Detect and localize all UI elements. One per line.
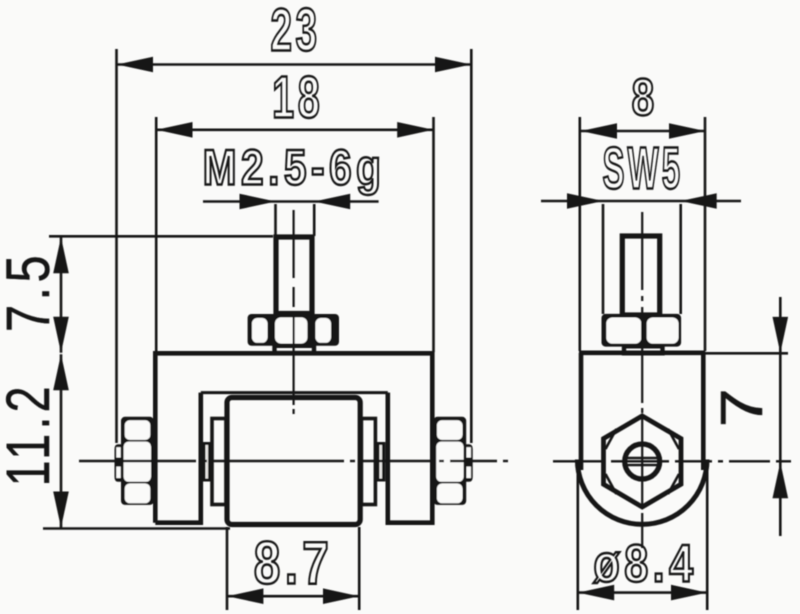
hexagon chamfer mark top-right bbox=[668, 429, 679, 449]
dimension 23 extension line right bbox=[470, 49, 473, 443]
svg-text:ø8.4: ø8.4 bbox=[593, 534, 697, 593]
dimension 8 arrow left bbox=[581, 123, 617, 139]
dimension 8 extension line right bbox=[704, 117, 707, 351]
dimension 8.7 line bbox=[227, 595, 359, 598]
dimension SW5 arrow left (pointing right) bbox=[567, 193, 603, 209]
dimension 18 extension line right bbox=[432, 117, 435, 352]
dimension diameter 8.4 extension line left bbox=[576, 470, 579, 610]
SW5 extension line left bbox=[602, 204, 605, 314]
axle end left bbox=[202, 442, 212, 482]
dimension 7 top extension line bbox=[705, 352, 788, 355]
dimension 8.7 arrow right bbox=[323, 588, 359, 604]
body (side view) top edge bbox=[579, 350, 705, 355]
thread dimension M2.5-6g line with tails bbox=[203, 200, 379, 203]
svg-text:18: 18 bbox=[272, 65, 323, 131]
dimension 23 extension line left bbox=[115, 49, 118, 443]
horizontal centerline (side view) bbox=[553, 460, 791, 462]
dimension 23 arrow left bbox=[117, 57, 153, 73]
thread extension line right bbox=[313, 204, 316, 236]
hexagon chamfer mark bottom-right bbox=[668, 474, 679, 494]
dimension 11.2 arrow up bbox=[53, 354, 69, 390]
screwdriver slot lines bbox=[624, 457, 660, 459]
thread dimension arrow right (pointing left at stud) bbox=[314, 194, 350, 210]
body bracket (fork) bbox=[155, 353, 432, 522]
dimension 11.2 bottom extension line bbox=[43, 527, 230, 530]
dimension 7 arrow down (above) bbox=[773, 317, 789, 353]
dimension 7 line bbox=[779, 297, 782, 536]
hexagon chamfer mark top-left bbox=[606, 429, 617, 449]
dimension 8.7 arrow left bbox=[227, 588, 263, 604]
svg-text:8: 8 bbox=[632, 68, 659, 126]
body (side view) right edge bbox=[701, 353, 706, 470]
dimension 8.7 extension line right bbox=[358, 527, 361, 610]
dimension diameter 8.4 extension line right bbox=[706, 470, 709, 610]
dimension diameter 8.4 arrow right bbox=[671, 585, 707, 601]
threaded stud bbox=[276, 237, 312, 314]
svg-text:7.5: 7.5 bbox=[0, 251, 62, 332]
side washer right bbox=[466, 444, 473, 482]
axle end right bbox=[376, 442, 386, 482]
body (side view) left edge bbox=[579, 353, 584, 470]
collar under nut (side view) bbox=[624, 346, 663, 353]
dimension 8 line bbox=[581, 130, 705, 133]
spacer washer left bbox=[212, 419, 226, 505]
svg-text:23: 23 bbox=[270, 0, 320, 64]
dimension 11.2 arrow down bbox=[53, 492, 69, 528]
vertical centerline (side view) bbox=[641, 212, 643, 548]
dimension 18 extension line left bbox=[155, 117, 158, 352]
side nut right bbox=[433, 417, 466, 505]
dimension 11.2 line bbox=[60, 354, 63, 527]
side nut left bbox=[121, 417, 154, 505]
hexagon chamfer mark bottom-left bbox=[606, 474, 617, 494]
svg-text:11.2: 11.2 bbox=[0, 382, 62, 486]
fork inner top line bbox=[201, 391, 388, 394]
svg-text:8.7: 8.7 bbox=[254, 529, 333, 597]
dimension 8 extension line left bbox=[578, 117, 581, 351]
hexagon nut (face view) bbox=[604, 416, 682, 507]
svg-text:M2.5-6g: M2.5-6g bbox=[203, 138, 386, 195]
dimension 7.5 line bbox=[60, 237, 63, 352]
thread extension line left bbox=[274, 204, 277, 236]
dimension 7.5 arrow up bbox=[53, 237, 69, 273]
roller arc (bottom half circle) bbox=[577, 460, 707, 525]
horizontal centerline of roller axis bbox=[79, 460, 508, 462]
threaded stud (side view) bbox=[622, 236, 659, 315]
SW5 extension line right bbox=[679, 204, 682, 314]
dimension SW5 line with tails bbox=[541, 200, 741, 203]
dimension SW5 arrow right (pointing left) bbox=[681, 193, 717, 209]
top nut (side view) bbox=[602, 314, 682, 347]
roller bbox=[227, 398, 360, 525]
collar under nut bbox=[275, 346, 315, 353]
thread dimension arrow left (pointing right at stud) bbox=[240, 194, 276, 210]
top nut bbox=[248, 314, 339, 346]
dimension 18 arrow right bbox=[397, 122, 433, 138]
spacer washer right bbox=[361, 419, 375, 505]
dimension 7.5 top extension line bbox=[49, 235, 273, 238]
axle end circle bbox=[625, 444, 660, 479]
dimension 7 arrow up (below) bbox=[773, 462, 789, 498]
dimension 18 line bbox=[157, 129, 434, 132]
dimension 18 arrow left bbox=[157, 122, 193, 138]
dimension 7.5 arrow down bbox=[53, 317, 69, 353]
svg-text:7: 7 bbox=[709, 382, 775, 428]
dimension diameter 8.4 line bbox=[578, 591, 707, 594]
vertical centerline of stud bbox=[293, 210, 295, 414]
dimension 8.7 extension line left bbox=[226, 527, 229, 610]
dimension diameter 8.4 arrow left bbox=[578, 585, 614, 601]
dimension 23 arrow right bbox=[435, 57, 471, 73]
side washer left bbox=[115, 444, 122, 482]
svg-text:SW5: SW5 bbox=[602, 135, 683, 202]
dimension 8 arrow right bbox=[669, 123, 705, 139]
dimension 23 line bbox=[117, 63, 471, 66]
